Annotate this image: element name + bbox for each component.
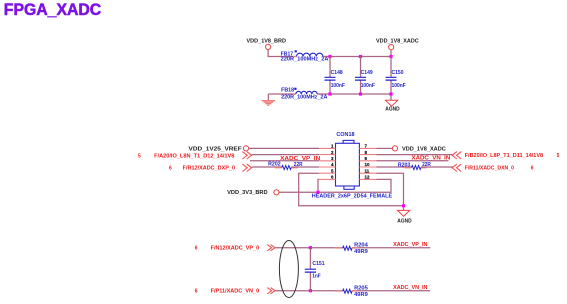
svg-text:CON18: CON18: [336, 132, 354, 138]
resistor R203: [398, 162, 431, 169]
wire pin4 left: [252, 166, 282, 168]
wire XADC_VP row: [275, 247, 343, 249]
junction 3V3 rail: [316, 191, 319, 194]
wire pin1: [249, 147, 319, 149]
wire pin12 to 3V3 rail: [279, 179, 391, 192]
resistor R204: [335, 242, 368, 254]
differential pair ellipse: [279, 241, 298, 298]
wire pin2: [252, 154, 319, 156]
svg-text:FB18: FB18: [281, 87, 294, 93]
wire ground to FB18: [268, 93, 296, 95]
pin stubs right 7-12: [359, 148, 376, 179]
ground AGND bottom: [397, 207, 412, 225]
svg-text:XADC_VN_IN: XADC_VN_IN: [393, 285, 428, 291]
wire pin5 to AGND rail: [299, 173, 404, 206]
svg-text:VDD_1V25_VREF: VDD_1V25_VREF: [189, 147, 242, 153]
junction C151 bottom: [309, 289, 312, 292]
wire VDD_1V8_BRD to FB17: [268, 50, 296, 57]
svg-text:100nF: 100nF: [361, 83, 375, 89]
wire pin7: [377, 147, 393, 149]
svg-text:100nF: 100nF: [392, 83, 406, 89]
wire pin4 right: [291, 166, 319, 168]
svg-text:R205: R205: [354, 285, 368, 291]
svg-text:220R_100MHz_2A: 220R_100MHz_2A: [281, 57, 329, 63]
svg-text:F/B20/IO_L8P_T1_D11_14/1V8: F/B20/IO_L8P_T1_D11_14/1V8: [465, 153, 544, 159]
svg-text:220R_100MHz_2A: 220R_100MHz_2A: [281, 95, 328, 101]
svg-text:F/A20/IO_L8N_T1_D12_14/1V8: F/A20/IO_L8N_T1_D12_14/1V8: [154, 153, 235, 159]
node F/P11/XADC_VN_0 (page 6): [195, 288, 275, 295]
wire pin3: [250, 160, 319, 162]
svg-text:11: 11: [365, 168, 370, 173]
svg-text:6: 6: [531, 166, 534, 172]
capacitor C149: [355, 57, 375, 95]
svg-text:XADC_VN_IN: XADC_VN_IN: [412, 155, 451, 161]
svg-text:F/N12/XADC_VP_0: F/N12/XADC_VP_0: [211, 245, 260, 251]
power port VDD_1V8_XADC right: [392, 146, 446, 153]
svg-text:12: 12: [365, 175, 371, 180]
svg-text:HEADER_2x6P_2D54_FEMALE: HEADER_2x6P_2D54_FEMALE: [312, 193, 393, 199]
wire pin10 left: [377, 166, 412, 168]
svg-text:VDD_1V8_XADC: VDD_1V8_XADC: [376, 38, 419, 44]
ferrite bead FB17: [281, 50, 329, 63]
wire XADC_VP row right: [352, 247, 430, 249]
capacitor C148: [325, 57, 345, 95]
svg-text:5: 5: [557, 153, 560, 159]
wire top rail: [323, 56, 391, 58]
node F/R12/XADC_DXP_0 (page 6): [169, 164, 252, 172]
svg-text:5: 5: [138, 153, 141, 159]
svg-text:VDD_1V8_XADC: VDD_1V8_XADC: [402, 147, 446, 153]
svg-text:R204: R204: [354, 242, 368, 248]
junction top C149: [359, 55, 362, 58]
pin stubs left 1-6: [319, 148, 336, 179]
resistor R202: [268, 162, 303, 170]
node F/N12/XADC_VP_0 (page 6): [195, 245, 275, 252]
wire XADC_VN row right: [352, 290, 430, 292]
junction top C148: [328, 55, 331, 58]
svg-text:FPGA_XADC: FPGA_XADC: [4, 1, 102, 19]
junction C151 top: [309, 246, 312, 249]
wire pin8: [377, 154, 454, 156]
svg-text:100nF: 100nF: [331, 83, 345, 89]
svg-text:6: 6: [169, 166, 172, 172]
resistor R205: [335, 285, 368, 297]
ground (earth) symbol: [262, 94, 276, 105]
svg-text:C151: C151: [312, 261, 324, 267]
svg-text:6: 6: [195, 245, 198, 251]
svg-text:XADC_VP_IN: XADC_VP_IN: [393, 242, 428, 248]
svg-text:AGND: AGND: [385, 106, 400, 112]
pin numbers 1-6: [331, 144, 334, 180]
power port VDD_1V25_VREF: [189, 146, 249, 153]
svg-text:F/R12/XADC_DXP_0: F/R12/XADC_DXP_0: [183, 166, 236, 172]
svg-text:10: 10: [365, 162, 371, 167]
power port VDD_3V3_BRD: [227, 190, 279, 196]
wire XADC_VN row: [275, 290, 343, 292]
svg-text:AGND: AGND: [397, 219, 412, 225]
svg-text:F/P11/XADC_VN_0: F/P11/XADC_VN_0: [211, 288, 260, 294]
wire pin10 right: [421, 166, 453, 168]
svg-text:F/R11/XADC_DXN_0: F/R11/XADC_DXN_0: [465, 166, 515, 172]
capacitor C151: [305, 248, 325, 291]
power port VDD_1V8_XADC: [376, 38, 419, 49]
wire VDD_1V8_XADC drop: [390, 50, 392, 57]
junction bottom C149: [359, 92, 362, 95]
junction top C150: [389, 55, 392, 58]
node F/R11/XADC_DXN_0 (page 6): [452, 164, 534, 172]
svg-text:C148: C148: [331, 70, 343, 76]
svg-text:VDD_3V3_BRD: VDD_3V3_BRD: [227, 190, 268, 196]
svg-text:VDD_1V8_BRD: VDD_1V8_BRD: [247, 38, 287, 44]
pin numbers 7-12: [365, 144, 371, 180]
junction bottom C150: [389, 92, 392, 95]
svg-text:6: 6: [195, 288, 198, 294]
wire bottom rail: [317, 93, 391, 95]
svg-text:49R9: 49R9: [354, 292, 368, 298]
svg-text:R202: R202: [268, 162, 281, 168]
power port VDD_1V8_BRD: [247, 38, 287, 49]
ferrite bead FB18: [281, 87, 328, 100]
node F/A20/IO_L8N_T1_D12_14/1V8 (page 5): [138, 152, 252, 160]
svg-text:1nF: 1nF: [312, 274, 321, 280]
wire pin6 to 3V3 rail: [317, 179, 320, 192]
svg-text:C150: C150: [392, 70, 404, 76]
wire pin9: [377, 160, 449, 162]
svg-text:C149: C149: [361, 70, 373, 76]
junction AGND rail: [402, 204, 405, 207]
junction bottom C148: [328, 92, 331, 95]
ground AGND top: [385, 96, 400, 113]
capacitor C150: [386, 57, 406, 95]
svg-text:49R9: 49R9: [354, 249, 368, 255]
connector CON18: [336, 132, 360, 189]
node F/B20/IO_L8P_T1_D11_14/1V8 (page 5): [452, 152, 559, 160]
